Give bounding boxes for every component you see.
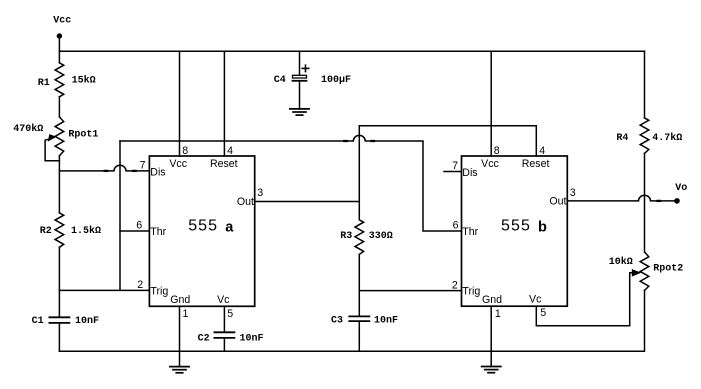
svg-text:Vcc: Vcc — [481, 158, 499, 170]
svg-text:555: 555 — [188, 217, 218, 234]
capacitor C1 — [49, 317, 69, 323]
pin 7 stub Dis b — [444, 171, 462, 173]
svg-text:1.5kΩ: 1.5kΩ — [71, 225, 101, 237]
svg-text:330Ω: 330Ω — [369, 231, 393, 242]
wire — [58, 38, 60, 63]
Rpot2 wiper arrow — [632, 269, 641, 277]
svg-text:R2: R2 — [40, 226, 52, 237]
svg-text:Vc: Vc — [529, 294, 542, 306]
svg-text:C3: C3 — [331, 315, 343, 326]
svg-text:470kΩ: 470kΩ — [13, 123, 43, 135]
wire — [358, 322, 360, 352]
svg-text:10nF: 10nF — [240, 334, 264, 345]
node vertical Thr/Trig tie — [119, 141, 121, 290]
pin 3 wire Out a — [255, 201, 360, 203]
svg-text:7: 7 — [452, 160, 458, 172]
pin 4 wire Reset a — [223, 51, 225, 156]
svg-text:10nF: 10nF — [374, 315, 398, 326]
pin 8 wire Vcc a — [179, 51, 181, 156]
ground rail — [59, 350, 644, 352]
svg-text:Vcc: Vcc — [169, 158, 187, 170]
svg-text:C4: C4 — [274, 75, 286, 86]
wire C4 drop — [299, 51, 301, 75]
svg-text:4: 4 — [539, 145, 545, 157]
wire tick marks — [105, 170, 136, 172]
svg-text:10nF: 10nF — [75, 316, 99, 327]
svg-text:C1: C1 — [32, 316, 44, 327]
pin 3 wire Out b (hop over R4 column) — [567, 195, 677, 201]
op IC 555 b box — [462, 156, 568, 306]
svg-text:R3: R3 — [340, 231, 352, 242]
svg-text:C2: C2 — [198, 334, 210, 345]
svg-text:5: 5 — [227, 308, 233, 320]
svg-text:3: 3 — [257, 187, 263, 199]
wire tick marks — [344, 140, 374, 142]
wire R4 column — [644, 51, 646, 118]
wire coupling to Thr b (hop over R3 column) — [120, 135, 462, 231]
svg-text:6: 6 — [453, 220, 459, 232]
svg-text:Gnd: Gnd — [482, 294, 502, 306]
svg-text:a: a — [225, 219, 234, 235]
svg-text:15kΩ: 15kΩ — [72, 75, 96, 87]
svg-text:555: 555 — [501, 217, 531, 234]
pin 1 wire Gnd b — [490, 306, 492, 351]
svg-text:Out: Out — [549, 196, 566, 208]
svg-text:8: 8 — [494, 145, 500, 157]
svg-text:Trig: Trig — [462, 286, 480, 298]
svg-text:Reset: Reset — [210, 158, 238, 170]
wire R3 column — [358, 126, 360, 220]
svg-text:R4: R4 — [616, 133, 628, 144]
wire — [58, 97, 60, 117]
wire coupling Out a to Reset b — [359, 126, 536, 156]
op IC 555 a box — [149, 156, 254, 306]
wire — [644, 153, 646, 252]
wire — [58, 324, 60, 352]
svg-text:b: b — [538, 219, 547, 235]
wire Trig b — [359, 290, 461, 292]
svg-text:8: 8 — [182, 145, 188, 157]
potentiometer Rpot2 — [640, 252, 649, 291]
potentiometer Rpot1 — [55, 117, 64, 156]
wire — [299, 82, 301, 109]
svg-text:R1: R1 — [38, 78, 50, 89]
wire tick mark — [658, 200, 660, 202]
svg-text:1: 1 — [495, 308, 501, 320]
svg-text:Gnd: Gnd — [170, 294, 190, 306]
svg-text:Trig: Trig — [150, 285, 168, 297]
power rail Vcc — [59, 50, 644, 52]
svg-text:5: 5 — [540, 307, 546, 319]
ground symbol a — [179, 351, 181, 366]
Rpot1 wiper — [45, 139, 59, 161]
node Vcc terminal — [57, 33, 62, 38]
svg-text:Thr: Thr — [150, 226, 166, 238]
ground symbol b — [490, 351, 492, 366]
svg-text:7: 7 — [140, 160, 146, 172]
svg-text:4.7kΩ: 4.7kΩ — [652, 132, 682, 144]
ground symbol C4 — [290, 109, 309, 115]
svg-text:Vcc: Vcc — [53, 15, 71, 26]
wire — [358, 254, 360, 315]
pin 1 wire Gnd a — [179, 306, 181, 351]
svg-text:Out: Out — [237, 196, 254, 208]
resistor R1 — [55, 63, 64, 97]
svg-text:Thr: Thr — [462, 226, 478, 238]
resistor R3 — [355, 220, 364, 255]
capacitor C2 — [214, 332, 234, 338]
C4 plus sign — [302, 65, 308, 71]
pin 5 wire Vc a — [223, 306, 225, 331]
capacitor C4 (electrolytic) — [293, 75, 307, 78]
svg-text:10kΩ: 10kΩ — [609, 256, 633, 268]
svg-text:1: 1 — [183, 308, 189, 320]
svg-text:Vo: Vo — [675, 183, 687, 194]
svg-text:6: 6 — [136, 220, 142, 232]
pin 8 wire Vcc b — [490, 51, 492, 156]
svg-text:Vc: Vc — [217, 294, 230, 306]
wire — [223, 339, 225, 352]
svg-text:Rpot1: Rpot1 — [68, 129, 98, 140]
svg-text:100μF: 100μF — [321, 75, 351, 86]
svg-text:4: 4 — [227, 145, 233, 157]
svg-text:Dis: Dis — [150, 166, 165, 178]
wire — [58, 247, 60, 316]
svg-text:Rpot2: Rpot2 — [653, 263, 683, 274]
resistor R4 — [640, 118, 649, 153]
wire Dis a (hop) — [59, 165, 149, 171]
svg-text:Reset: Reset — [522, 158, 550, 170]
wire Trig a — [59, 289, 149, 291]
pin 5 wire Vc b to Rpot2 wiper — [536, 273, 633, 326]
wire Thr a — [120, 230, 149, 232]
resistor R2 — [55, 213, 64, 248]
capacitor C3 — [349, 316, 369, 321]
svg-text:3: 3 — [570, 187, 576, 199]
svg-text:2: 2 — [452, 280, 458, 292]
node Vo terminal — [674, 198, 680, 204]
svg-text:2: 2 — [137, 279, 143, 291]
svg-text:Dis: Dis — [462, 167, 477, 179]
wire — [644, 291, 646, 352]
wire — [58, 156, 60, 213]
